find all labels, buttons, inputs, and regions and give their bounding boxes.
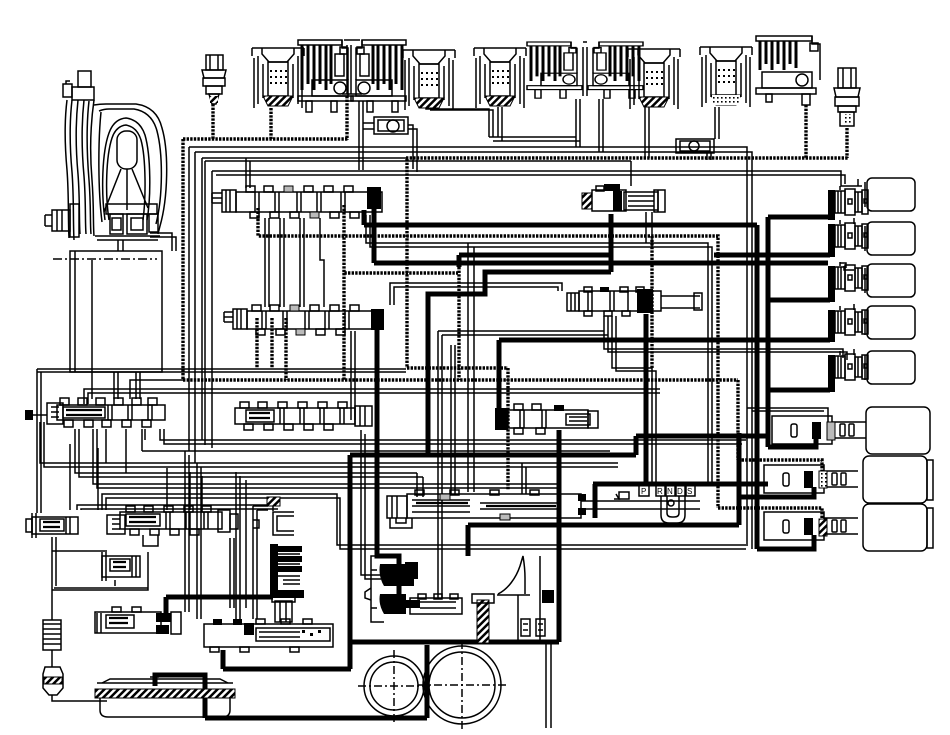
wire thick y525 [468, 523, 739, 528]
valve P (solenoid relay) [582, 184, 665, 212]
wire suction pan line [52, 537, 148, 620]
wire thick y455 [350, 453, 636, 458]
wire thick x739 B2 [737, 433, 742, 525]
wire hatched vertical x652 [650, 236, 653, 368]
wire dashdot converter centerline [53, 258, 157, 260]
wire pair y243/247 from valve P [366, 215, 708, 486]
wire valve row1 drops [105, 429, 107, 463]
wire thick U1 stub [768, 215, 830, 220]
shift indicator PRNDS [639, 485, 695, 496]
solenoid pair F1/F2 (finned) [298, 40, 406, 112]
filter ladder [43, 620, 61, 650]
governor assembly [472, 556, 554, 643]
small valve left row2 [26, 513, 78, 538]
wire thick bus x757 [755, 225, 760, 549]
check valve box B [676, 139, 714, 153]
wire hatched x344 lower [342, 273, 345, 380]
wire governor output pair [545, 642, 547, 728]
wire PS1 stem hatched [211, 104, 214, 139]
wire rect-M drops to valve row1 [91, 260, 93, 399]
wire valve N drops [264, 218, 266, 307]
detent lever hook [614, 492, 685, 523]
wire thick comb feed [166, 595, 273, 600]
pressure relief valve row1 [25, 398, 165, 427]
accumulator B3 [764, 504, 933, 551]
converter input shaft connector [45, 204, 79, 237]
wire thick pan pickup [155, 675, 205, 718]
wire solenoid S3 link [489, 107, 576, 137]
wire left long vertical to filter [36, 369, 38, 513]
svg-text:P: P [641, 487, 646, 496]
torque converter [63, 71, 167, 240]
accumulator B1 [772, 407, 930, 454]
wire thick U5 feed [768, 388, 830, 393]
cooler/reservoir rectangle [70, 251, 162, 372]
wire valve P top riser [630, 161, 632, 186]
clutch piston U3 [828, 264, 915, 302]
wire thick valve P drop [609, 214, 614, 272]
wire y380 left thin part [130, 380, 183, 399]
wire hatched main line left [181, 139, 184, 380]
2nd valve on row1 (to x372) [235, 402, 372, 430]
wire valve Q inner pair [612, 316, 652, 486]
wire thick B1 feed [768, 437, 816, 447]
wire B1 gray feed pair [747, 408, 828, 423]
wire F1F2 center stem hatched [345, 96, 348, 140]
solenoid pair F3 (finned) [527, 42, 643, 98]
wire thick y272 link [428, 272, 611, 455]
wire F2 right stem [358, 101, 360, 170]
svg-text:N: N [667, 487, 673, 496]
rear pump circle [418, 641, 506, 729]
valve Q (control) [567, 287, 702, 316]
wire F4 stem dotted [804, 105, 807, 158]
wire left bus verticals [188, 147, 190, 451]
front pump circle [358, 650, 430, 722]
wire hatched riser x407 [405, 159, 408, 368]
wire thick y255 segment B clutch U2 [714, 253, 830, 258]
wire thick U3 stub [768, 298, 830, 303]
clutch piston U2 [828, 222, 915, 257]
wire hatched y236 line [258, 208, 718, 508]
wire x361 pair to regulator [361, 430, 381, 575]
svg-text:D: D [677, 487, 683, 496]
wire valve O right thin drops [350, 331, 352, 420]
check funnel [43, 667, 63, 695]
wire y451 band [142, 450, 610, 452]
wire piston vent ticks [839, 186, 841, 355]
solenoid S1 (cup, hatched base) [252, 48, 304, 108]
wire F3 stems [575, 99, 577, 147]
wire valve P right drop pair [645, 212, 647, 243]
wire pair y463/467 to manual valve [40, 422, 618, 463]
wire thick y484 [593, 482, 768, 487]
wire valve O hatched drops [255, 318, 258, 368]
small valve V3 [102, 552, 140, 581]
wire thick valve N blob drop + y263 [372, 206, 377, 263]
wire thick y255 segment A [459, 253, 609, 258]
wire pair y283 valve O to valve Q [390, 283, 562, 305]
wire PS2 stem dotted [845, 128, 848, 158]
solenoid S2 (cup) [403, 50, 455, 110]
lube valve bottom-left [95, 607, 181, 634]
pressure switch PS2 [834, 68, 860, 126]
wire thick x559 [557, 430, 562, 642]
wire hatched valve N drop [246, 158, 250, 188]
wire thick valve Q drop [644, 314, 649, 486]
wire pair y473/477 [75, 345, 451, 497]
wire thick y433 [636, 434, 768, 439]
shift valve N (upper) [212, 186, 382, 218]
wire converter down pair [117, 240, 119, 251]
wire hatched y368 [407, 366, 508, 369]
converter check valve body [204, 597, 333, 652]
wire bus top hatched y138 [183, 137, 348, 140]
wire bus y147 to accumulator B1 riser [189, 147, 747, 546]
svg-text:S: S [687, 487, 692, 496]
solenoid S5 (cup, speckled base) [700, 47, 752, 107]
wire bus pair y171/175 to clutch U1 [212, 171, 862, 186]
wire pair y352 to clutch U5 top [604, 316, 843, 358]
wire pair y494 to window [102, 494, 746, 545]
wire thin y263 U3 feed [840, 263, 846, 268]
wire pair x476 to manual valve [467, 243, 469, 492]
wire thick regulator link x399 [397, 558, 402, 612]
wire hatched y273 [344, 205, 458, 273]
wire S2 stem [426, 106, 489, 137]
wire x232 drop row2 to governor [229, 538, 231, 608]
wire S5 stem [714, 107, 716, 139]
wire pair x438 to governor valve [438, 331, 604, 598]
pressure switch PS1 [202, 55, 226, 104]
pressure regulator block (black blobs) [365, 556, 462, 622]
wire pair y440/444 [160, 429, 746, 440]
wire U-canister nipples [857, 179, 859, 186]
manual valve [387, 490, 700, 520]
wire S4 stem [644, 107, 646, 158]
vent (hatched square) [253, 497, 280, 619]
wire row2 feeders [69, 444, 71, 510]
wire pair y369 left [37, 368, 406, 370]
manual valve drain bracket [390, 518, 412, 528]
check valve box A [363, 117, 417, 172]
wire hatched branch to servo B2 [738, 460, 822, 472]
clutch piston U5 [828, 351, 915, 392]
solenoid S3 (cup) [474, 48, 526, 108]
svg-text:R: R [657, 487, 663, 496]
shift valve O (lower) [224, 305, 384, 335]
wire thick governor box bottom [351, 640, 559, 645]
solenoid F4 (large finned) [756, 36, 820, 105]
wire y588 link [54, 587, 148, 589]
wire bus hatched y158 [406, 156, 848, 159]
wire S1 stem hatched [269, 108, 272, 139]
coast valve row2 [107, 506, 238, 546]
wire pair y484 thin [93, 429, 560, 484]
wire thick valve O blob drop [377, 329, 399, 570]
wire pair y505 [77, 505, 278, 510]
detent comb [270, 544, 304, 598]
wire thick y340 clutch U4 [499, 338, 830, 343]
wire thick bottom frame [221, 650, 226, 669]
wire hatched branch to servo B3 [718, 508, 822, 519]
wire bus y163 [202, 158, 631, 161]
clutch piston U1 [828, 178, 915, 220]
wire thick bus x764 [766, 217, 771, 447]
secondary regulator valve [495, 404, 598, 434]
solenoid S4 (cup) [628, 49, 680, 109]
wire band-to-bottom verticals [184, 451, 186, 612]
oil pan with filter screen [95, 677, 235, 717]
throttle window [253, 512, 294, 535]
accumulator B2 [764, 456, 933, 503]
wire thick y225 [362, 210, 367, 225]
wire thick B3 feed [757, 535, 814, 549]
wire pair y389 [84, 389, 660, 404]
clutch piston U4 [828, 306, 915, 342]
